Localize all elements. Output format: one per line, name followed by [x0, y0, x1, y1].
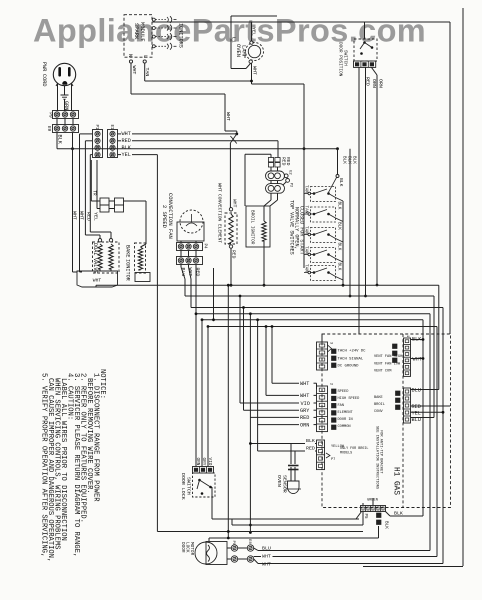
- svg-text:TR: TR: [92, 191, 96, 196]
- wire ctrl VIO: [239, 296, 241, 403]
- svg-text:IGNITOR: IGNITOR: [125, 259, 131, 281]
- wire tach feed: [321, 334, 323, 342]
- terminal pair E2: [266, 171, 285, 181]
- wire lamp YEL to top rail: [251, 22, 253, 41]
- wire door sw ORN 2: [372, 67, 378, 75]
- wire door switch feed: [364, 22, 366, 39]
- wire P9-E9 stubs: [56, 119, 58, 125]
- wire P5 down: [378, 526, 380, 538]
- wire motor WHT2: [254, 559, 258, 564]
- wire E9-1 to BLK bus: [56, 133, 58, 149]
- wire bus B3: [191, 307, 443, 309]
- wire ctrl RED: [249, 314, 251, 533]
- terminal pair P2: [266, 184, 285, 194]
- spark module: [124, 15, 152, 58]
- svg-text:E9: E9: [46, 126, 52, 132]
- wire element down to bus: [230, 248, 232, 285]
- valve switch 5: [311, 266, 336, 281]
- connector E4 row: [177, 257, 203, 265]
- svg-text:SENSOR: SENSOR: [281, 475, 287, 493]
- svg-text:FOR ANTI-TIP BRACKET: FOR ANTI-TIP BRACKET: [379, 430, 383, 474]
- valve switch 2: [311, 207, 336, 222]
- connector P1 column: [93, 130, 103, 158]
- svg-text:CORD: CORD: [41, 74, 47, 86]
- wire valve right takeoff: [349, 149, 351, 296]
- wire sensor RED: [258, 450, 305, 452]
- svg-text:BLK: BLK: [57, 135, 63, 145]
- wire BLK right: [411, 339, 424, 341]
- svg-text:WHT: WHT: [262, 562, 271, 568]
- svg-text:CONVECTION ELEMENT: CONVECTION ELEMENT: [216, 194, 222, 243]
- svg-text:CONV: CONV: [374, 410, 384, 414]
- wire spark N run: [130, 63, 132, 94]
- svg-text:BLU: BLU: [412, 388, 421, 394]
- wire bus B2: [185, 295, 434, 297]
- svg-text:SWITCH: SWITCH: [342, 50, 348, 66]
- svg-text:WHT: WHT: [413, 357, 422, 363]
- wire P1 c1 WHT down: [80, 133, 93, 135]
- power cord plug P1: [53, 63, 75, 85]
- connector P1 tach block: [317, 342, 328, 370]
- wire small conn marks: [396, 391, 401, 396]
- valve switch 1: [311, 187, 336, 202]
- wire riser x434: [433, 296, 435, 418]
- svg-text:DC GROUND: DC GROUND: [338, 365, 360, 369]
- wire bus B1: [96, 284, 439, 286]
- wire sensor leads: [290, 444, 292, 465]
- svg-text:GRY: GRY: [300, 408, 310, 414]
- wire L1 top rail: [152, 21, 450, 23]
- wire BLU right: [411, 389, 439, 391]
- connector E9 row: [53, 125, 79, 133]
- svg-text:GRY: GRY: [201, 458, 207, 466]
- svg-text:DOOR IN: DOOR IN: [338, 418, 353, 422]
- svg-text:PWR: PWR: [41, 62, 47, 71]
- svg-text:BLK: BLK: [351, 156, 357, 164]
- wire riser x228: [227, 285, 229, 538]
- svg-text:HIGH SPEED: HIGH SPEED: [338, 397, 360, 401]
- wire door lock RED riser: [207, 327, 209, 467]
- lamp bulb: [246, 43, 264, 61]
- wire row1 WHT right: [118, 133, 122, 135]
- connector P5 strip: [361, 506, 386, 512]
- wire fan WHT down: [188, 265, 190, 268]
- wire fan BLU down: [180, 265, 182, 268]
- svg-text:WHT: WHT: [122, 131, 131, 137]
- connector P4 row: [177, 243, 203, 251]
- wire lamp WHT down: [251, 63, 253, 84]
- wire plug leads: [57, 84, 59, 112]
- wire fan row stubs: [180, 251, 182, 257]
- wire P5 left diag: [356, 512, 362, 520]
- wire row3 BLK bus: [57, 148, 338, 150]
- svg-text:BLK: BLK: [336, 222, 342, 230]
- svg-text:DOOR LOCK: DOOR LOCK: [180, 473, 186, 500]
- wire P1 c4 YEL down: [90, 154, 92, 156]
- svg-text:GREEN: GREEN: [367, 499, 378, 503]
- svg-text:5. VERIFY PROPER OPERATION AFT: 5. VERIFY PROPER OPERATION AFTER SERVICI…: [40, 373, 48, 557]
- spark module ignitor pins: [152, 18, 155, 21]
- svg-text:SPARK: SPARK: [133, 23, 140, 40]
- wire door lock out: [211, 487, 213, 519]
- wire ctrl ORN: [257, 320, 259, 451]
- wire bake feed: [145, 201, 147, 244]
- wire door lock VIO riser: [201, 320, 203, 467]
- svg-text:BAKE: BAKE: [374, 396, 383, 400]
- svg-text:BLK: BLK: [338, 178, 344, 187]
- svg-text:WHT: WHT: [71, 211, 77, 220]
- svg-text:RED: RED: [122, 138, 131, 144]
- svg-text:H1: H1: [392, 467, 400, 477]
- svg-text:VENT FAN LOW: VENT FAN LOW: [374, 363, 401, 367]
- svg-text:E1: E1: [109, 125, 113, 130]
- wire bus B4: [196, 313, 430, 315]
- svg-text:OVEN: OVEN: [276, 475, 282, 487]
- wire valve feed junction: [336, 147, 339, 150]
- svg-text:BLK: BLK: [306, 438, 315, 444]
- svg-text:COMMON: COMMON: [338, 425, 351, 429]
- wire junction to valve rail: [252, 83, 305, 85]
- wire row4 YEL right: [118, 154, 122, 156]
- svg-text:WHT: WHT: [262, 554, 271, 560]
- svg-text:MODELS: MODELS: [340, 452, 352, 456]
- svg-text:L: L: [142, 55, 148, 58]
- svg-text:ORN: ORN: [371, 79, 377, 88]
- wire riser x438.8: [438, 285, 440, 389]
- svg-text:P9: P9: [48, 112, 54, 118]
- svg-text:BLK: BLK: [383, 521, 389, 529]
- svg-text:TACH SIGNAL: TACH SIGNAL: [338, 358, 364, 362]
- svg-text:P2: P2: [289, 183, 293, 187]
- svg-text:ELEMENT: ELEMENT: [338, 411, 354, 415]
- svg-text:3: 3: [329, 342, 333, 345]
- svg-text:WHT: WHT: [131, 66, 137, 75]
- svg-text:VIO: VIO: [207, 458, 213, 466]
- svg-text:BLK: BLK: [336, 243, 342, 251]
- svg-text:BAKE: BAKE: [125, 245, 131, 257]
- wire bottom y538: [209, 537, 379, 539]
- svg-text:SPEED: SPEED: [338, 390, 349, 394]
- svg-text:WHT: WHT: [93, 278, 102, 284]
- wire riser x437: [436, 327, 438, 557]
- wire ctrl WHT2: [265, 327, 267, 396]
- svg-text:BLK: BLK: [336, 263, 342, 271]
- wire RED right: [411, 405, 451, 407]
- connector right bottom block: [404, 388, 411, 423]
- wire bus B5: [202, 319, 423, 321]
- svg-text:TACH +24V DC: TACH +24V DC: [338, 350, 367, 354]
- svg-text:GAS: GAS: [392, 481, 400, 495]
- svg-text:WHT: WHT: [78, 211, 84, 220]
- svg-text:MOTOR: MOTOR: [189, 542, 195, 556]
- wire P1 c2 RED down: [85, 140, 92, 142]
- wire riser x430: [429, 314, 431, 551]
- svg-text:YEL: YEL: [122, 152, 131, 158]
- crossover plugs: [268, 158, 273, 162]
- valve switch 3: [311, 228, 336, 243]
- connector right top block: [404, 338, 411, 376]
- svg-text:WHT: WHT: [225, 112, 231, 121]
- wire ctrl GRY: [243, 308, 245, 411]
- sensor connector: [317, 440, 325, 470]
- svg-text:YEL: YEL: [412, 411, 421, 417]
- valve switch 4: [311, 248, 336, 263]
- svg-text:ORN: ORN: [300, 422, 309, 428]
- door switch terminals: [354, 61, 376, 67]
- svg-text:WHT: WHT: [300, 393, 309, 399]
- wire motor BLU: [254, 548, 258, 551]
- svg-text:YEL: YEL: [92, 212, 98, 221]
- svg-text:RED: RED: [194, 268, 200, 277]
- wire riser x213: [213, 268, 215, 320]
- wire row2 RED right: [118, 140, 122, 142]
- svg-text:2 SPEED: 2 SPEED: [161, 205, 168, 228]
- svg-text:P4: P4: [203, 244, 207, 249]
- svg-text:2: 2: [329, 383, 333, 386]
- svg-text:BROIL IGNITOR: BROIL IGNITOR: [249, 210, 255, 245]
- wire valve right rail: [342, 201, 344, 285]
- svg-text:P7: P7: [331, 458, 335, 462]
- wire broil to bus: [263, 247, 265, 285]
- svg-text:SWITCH: SWITCH: [185, 477, 191, 495]
- wire crossover X: [230, 134, 236, 143]
- wire sensor BLK: [250, 443, 305, 445]
- wire valve body to bus: [95, 285, 97, 287]
- svg-text:ORN: ORN: [195, 458, 201, 466]
- wire YEL U-link: [245, 153, 271, 155]
- wire bottom y532: [157, 531, 363, 533]
- wire strip cell feeds: [362, 503, 364, 506]
- svg-text:E8: E8: [247, 539, 251, 544]
- wire right rail inner: [449, 22, 451, 334]
- svg-text:CONVECTION FAN: CONVECTION FAN: [167, 193, 174, 239]
- svg-text:VIO: VIO: [301, 401, 310, 407]
- sensor riser dots: [249, 524, 252, 527]
- wire bus B6: [208, 326, 437, 328]
- svg-text:FAN: FAN: [338, 404, 345, 408]
- wire door sw ORN 1: [365, 67, 367, 296]
- svg-text:AppliancePartsPros.com: AppliancePartsPros.com: [33, 13, 426, 49]
- wire riser x443: [442, 308, 444, 564]
- wire riser x423: [422, 320, 424, 516]
- svg-text:ORN: ORN: [377, 79, 383, 88]
- valve body: [77, 271, 118, 287]
- wire fan RED down: [195, 265, 197, 467]
- wire outer border right: [462, 8, 464, 566]
- wire motor WHT: [254, 556, 261, 558]
- connector P9 row: [53, 111, 79, 119]
- wire valve left rail: [303, 149, 305, 268]
- wire spark L TAN run: [144, 63, 146, 81]
- electronic control dashed box: [322, 334, 451, 508]
- wire left riser x157: [156, 155, 158, 532]
- wire door sw RED: [358, 67, 360, 334]
- svg-text:WHT: WHT: [251, 66, 257, 75]
- wire P5 BLK right: [386, 512, 391, 517]
- svg-text:L1: L1: [230, 37, 236, 43]
- ground symbol: [64, 86, 66, 95]
- connector E1 column: [108, 130, 118, 158]
- svg-text:BLK: BLK: [336, 202, 342, 210]
- svg-text:1: 1: [405, 335, 409, 338]
- connector P3 block: [317, 386, 328, 432]
- svg-text:BROIL: BROIL: [374, 403, 385, 407]
- svg-text:N: N: [127, 54, 133, 57]
- svg-text:RED: RED: [300, 415, 309, 421]
- wire outer border bottom: [363, 566, 463, 568]
- wire ctrl WHT1: [271, 327, 273, 384]
- svg-text:P1: P1: [94, 125, 98, 130]
- svg-text:WHT: WHT: [231, 199, 237, 208]
- svg-text:ONLY FOR BROIL: ONLY FOR BROIL: [340, 447, 368, 451]
- svg-text:P5: P5: [363, 514, 367, 519]
- motor terminals P8: [231, 545, 237, 551]
- svg-text:WHT: WHT: [216, 183, 222, 192]
- wire E9 t3 WHT down: [72, 133, 74, 273]
- svg-text:DUAL: DUAL: [92, 243, 98, 255]
- oven lamp assembly: [231, 15, 277, 17]
- svg-text:RED: RED: [412, 404, 421, 410]
- wire WHT right: [411, 358, 424, 360]
- wire relay feed: [90, 160, 92, 201]
- svg-text:RED: RED: [306, 446, 315, 452]
- svg-text:MODULE: MODULE: [139, 22, 146, 42]
- svg-text:P8: P8: [231, 541, 235, 546]
- svg-text:SEE INSTALLATION INSTRUCTIONS: SEE INSTALLATION INSTRUCTIONS: [375, 426, 379, 489]
- wire YEL right: [411, 411, 444, 413]
- wire relay lower link: [96, 160, 98, 209]
- wire BLU2 right: [411, 417, 435, 419]
- svg-text:RED: RED: [285, 157, 291, 166]
- svg-text:CLOSED FOR START: CLOSED FOR START: [298, 206, 304, 255]
- wire bottom y525: [232, 524, 363, 526]
- svg-text:IGNITORS: IGNITORS: [178, 23, 184, 48]
- svg-text:VENT COM: VENT COM: [374, 370, 391, 374]
- svg-text:E2: E2: [288, 170, 292, 174]
- svg-text:VENT FAN HIGH: VENT FAN HIGH: [374, 355, 402, 359]
- svg-text:WHT: WHT: [300, 381, 309, 387]
